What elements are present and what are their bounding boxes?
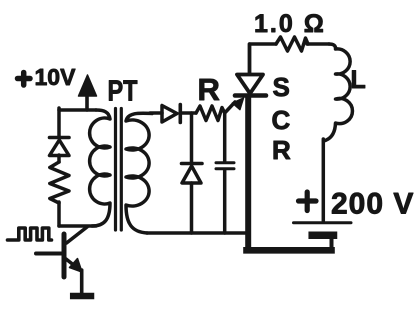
svg-text:PT: PT: [108, 76, 138, 108]
SCR U1: [235, 75, 266, 96]
resistor 1.0 ohm: [276, 37, 308, 51]
svg-text:R: R: [272, 135, 291, 165]
label PT: [108, 76, 138, 108]
inductor L: [324, 44, 353, 141]
plus sign of +10V: [18, 73, 31, 86]
battery negative plate: [312, 232, 333, 240]
wire left branch lower: [57, 202, 61, 226]
resistor (primary damping): [50, 162, 69, 203]
wire capacitor branch upper: [223, 113, 227, 161]
wire left branch upper: [57, 108, 61, 136]
transformer PT core: [116, 109, 122, 231]
diode D1: [50, 138, 70, 156]
SCR anode wire: [248, 44, 252, 74]
ground: [73, 293, 91, 300]
svg-text:1.0 Ω: 1.0 Ω: [254, 10, 326, 38]
wire secondary top: [150, 111, 162, 115]
label 1.0 ohm: [254, 10, 326, 38]
wire bottom rail right: [247, 247, 332, 254]
wire secondary bottom: [147, 231, 246, 235]
svg-text:L: L: [351, 66, 366, 94]
resistor R: [196, 106, 225, 121]
capacitor C: [216, 163, 234, 169]
label battery plus: [299, 192, 317, 211]
wire capacitor branch lower: [223, 170, 227, 233]
label L: [351, 66, 366, 94]
wire gate lead: [225, 102, 235, 113]
transistor Q1 emitter lead: [66, 259, 82, 273]
wire resistor to inductor: [307, 42, 329, 46]
wire bottom-left rail: [59, 224, 96, 228]
battery positive plate: [294, 221, 352, 224]
wire after D2: [180, 111, 196, 115]
pulse input waveform: [8, 228, 52, 240]
svg-text:200 V: 200 V: [331, 188, 414, 221]
transformer PT primary winding: [90, 110, 110, 226]
wire between D1 and resistor: [57, 155, 61, 162]
label C: [272, 105, 291, 135]
svg-text:10V: 10V: [35, 64, 77, 90]
svg-text:S: S: [273, 72, 290, 102]
wire shunt diode branch lower: [190, 183, 194, 233]
power arrow +10V: [79, 75, 97, 110]
transistor Q1 base bar: [62, 234, 67, 277]
transformer PT secondary winding: [126, 113, 152, 233]
label 200 V: [331, 188, 414, 221]
diode D2 series: [162, 105, 180, 123]
wire shunt diode branch upper: [190, 113, 194, 162]
wire top right to resistor: [250, 44, 277, 73]
SCR cathode wire: [245, 97, 251, 249]
gate arrowhead: [232, 98, 243, 110]
diode D3 shunt: [182, 164, 203, 184]
wire right side down: [322, 139, 326, 221]
label R: [198, 72, 220, 107]
transistor Q1 base lead: [36, 252, 62, 256]
svg-text:R: R: [198, 72, 220, 107]
label S: [273, 72, 290, 102]
label R of SCR: [272, 135, 291, 165]
transistor Q1 collector lead: [67, 227, 88, 243]
label +10V: [35, 64, 77, 90]
wire top-left rail: [59, 108, 96, 112]
svg-text:C: C: [272, 105, 291, 135]
transistor Q1 emitter wire: [80, 270, 84, 293]
battery minus stub: [330, 238, 334, 249]
